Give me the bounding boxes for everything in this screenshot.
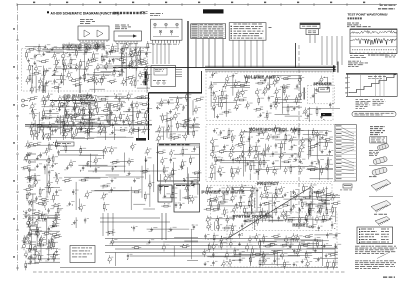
svg-text:SPEAKER: SPEAKER (314, 82, 332, 86)
svg-text:TEST POINT WAVEFORMS/: TEST POINT WAVEFORMS/ (348, 13, 388, 17)
svg-text:RESET: RESET (293, 223, 309, 228)
svg-text:AX-890 SCHEMATIC DIAGRAM (FUNC: AX-890 SCHEMATIC DIAGRAM (FUNCTION) / (51, 11, 121, 15)
svg-text:PROTECT: PROTECT (257, 181, 279, 186)
